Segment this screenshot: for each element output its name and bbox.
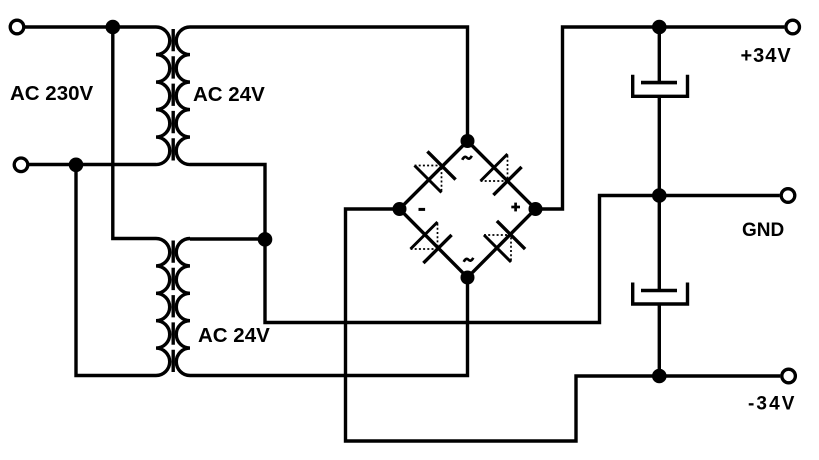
- svg-text:GND: GND: [742, 220, 784, 241]
- svg-text:AC 24V: AC 24V: [198, 324, 270, 347]
- svg-text:+34V: +34V: [741, 45, 792, 67]
- svg-text:AC 24V: AC 24V: [193, 83, 265, 106]
- svg-text:-34V: -34V: [748, 394, 797, 415]
- svg-text:AC 230V: AC 230V: [10, 82, 94, 105]
